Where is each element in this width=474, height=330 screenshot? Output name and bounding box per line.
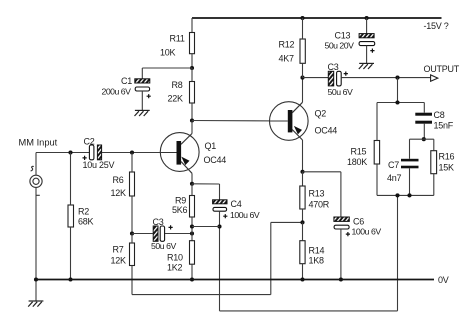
wire C4 bottom down past 0V (219, 211, 221, 311)
wire network bottom bus (377, 194, 434, 196)
junction C4/R9 wire (217, 224, 221, 228)
svg-text:10K: 10K (160, 48, 176, 58)
wire C2 to Q1 base (102, 152, 161, 154)
svg-text:100u 6V: 100u 6V (352, 227, 382, 237)
capacitor C6 (334, 217, 349, 221)
svg-text:R11: R11 (170, 34, 185, 44)
svg-text:R8: R8 (172, 80, 183, 90)
capacitor C4 (213, 200, 227, 204)
wire down to C1 (141, 68, 143, 79)
junction R14/0V (300, 277, 304, 281)
wire C1 to ground (141, 91, 143, 110)
node C junction C2/R6/Q1 base (130, 150, 134, 154)
svg-text:4K7: 4K7 (279, 54, 295, 64)
wire 0V rail (36, 279, 434, 281)
wire R9 to R10 through nodes (191, 217, 193, 241)
junction R2/0V (68, 277, 72, 281)
wire C7 to bottom bus (409, 168, 411, 195)
wire R7 down through 0V rail (131, 266, 133, 295)
junction C8/inner bus (422, 137, 426, 141)
svg-text:50u 6V: 50u 6V (328, 87, 353, 97)
wire input jack to signal node (35, 153, 37, 176)
svg-text:C8: C8 (434, 110, 445, 120)
junction R9 bottom/C4 return (190, 224, 194, 228)
svg-text:50u 20V: 50u 20V (325, 41, 355, 51)
resistor R12 (300, 39, 305, 63)
capacitor C13 (359, 34, 374, 38)
resistor R7 (130, 243, 135, 266)
svg-text:OC44: OC44 (315, 126, 338, 136)
capacitor C8 (415, 113, 432, 116)
wire R8 to Q1 collector node (191, 103, 193, 121)
resistor R2 (68, 205, 74, 227)
capacitor C1 (135, 79, 150, 83)
svg-text:OC44: OC44 (204, 155, 227, 165)
svg-text:R6: R6 (113, 175, 124, 185)
svg-text:470R: 470R (309, 200, 330, 210)
svg-text:200u 6V: 200u 6V (102, 87, 132, 97)
output arrow (431, 75, 438, 81)
wire feedback run to R13/R14 node (132, 294, 271, 296)
svg-text:1K8: 1K8 (309, 256, 325, 266)
node G junction R12/Q2 collector/C3 out (300, 76, 304, 80)
wire C3 to node E (165, 233, 192, 235)
wire down to C6 (340, 172, 342, 217)
wire R15 to bottom bus (376, 164, 378, 195)
wire node K to R14 (302, 222, 304, 240)
wire feedback rise (270, 222, 272, 294)
wire node A to C1 (142, 67, 192, 69)
wire top bus to R15 (376, 103, 378, 141)
wire inner bus to C7 (409, 139, 411, 159)
svg-text:C3: C3 (153, 217, 164, 227)
wire node J down to network (397, 78, 399, 103)
svg-text:R2: R2 (78, 207, 89, 217)
wire node C to R6 (131, 153, 133, 173)
svg-text:R16: R16 (439, 152, 455, 162)
wire node D to C3 (132, 233, 153, 235)
wire rail to R11 (191, 18, 193, 33)
wire rise to RIAA network bottom (397, 195, 399, 311)
resistor R16 (431, 151, 437, 174)
polarity tick (36, 194, 40, 196)
svg-text:C7: C7 (388, 160, 399, 170)
svg-text:R14: R14 (309, 246, 325, 256)
ground chassis below C13 (359, 63, 374, 69)
svg-text:10u 25V: 10u 25V (83, 160, 115, 170)
svg-text:4n7: 4n7 (387, 173, 402, 183)
wire jack sleeve to 0V (35, 187, 37, 279)
junction rail/R12 (300, 16, 304, 20)
svg-text:R10: R10 (167, 253, 183, 263)
wire R10 to 0V rail (191, 264, 193, 279)
wire R13 to node K (302, 209, 304, 222)
svg-text:MM Input: MM Input (19, 138, 58, 148)
wire rail to R12 (302, 18, 304, 39)
node E junction C3/R9/R10 (190, 231, 194, 235)
wire 0V to chassis ground (35, 280, 37, 302)
junction C7/bottom bus (407, 193, 411, 197)
ground chassis below C1 (135, 110, 150, 116)
resistor R14 (300, 241, 305, 264)
wire Q2 collector lead (302, 78, 304, 103)
svg-text:R7: R7 (113, 245, 124, 255)
wire R14 to 0V rail (302, 264, 304, 280)
wire R11 to node A (191, 54, 193, 68)
svg-text:C1: C1 (121, 76, 132, 86)
resistor R9 (190, 196, 195, 218)
svg-text:100u 6V: 100u 6V (230, 210, 260, 220)
wire Q1 collector to Q2 base (192, 120, 288, 123)
transistor Q2 OC44 (270, 102, 309, 141)
wire C8 to inner bus (423, 124, 425, 140)
wire Q2 emitter lead (302, 140, 304, 172)
svg-text:C3: C3 (328, 62, 339, 72)
svg-text:Q2: Q2 (315, 109, 327, 119)
transistor Q1 OC44 (160, 133, 199, 174)
wire network top bus (377, 102, 424, 104)
svg-text:50u 6V: 50u 6V (151, 241, 176, 251)
junction rail/C13 (365, 16, 369, 20)
svg-text:C4: C4 (231, 199, 242, 209)
capacitor C2 (89, 145, 94, 160)
wire rail to C13 (366, 18, 368, 34)
junction bottom bus/return (395, 193, 399, 197)
svg-text:R9: R9 (175, 196, 186, 206)
connector J1 MM input socket (30, 175, 42, 187)
wire C6 to 0V rail (340, 229, 342, 280)
svg-text:22K: 22K (168, 94, 184, 104)
wire Q1 emitter lead (191, 173, 193, 184)
wire feedback to R13/R14 junction (271, 221, 303, 223)
svg-text:C13: C13 (335, 31, 351, 41)
svg-text:15nF: 15nF (434, 121, 454, 131)
svg-text:15K: 15K (439, 163, 455, 173)
junction network top (395, 100, 399, 104)
resistor R8 (190, 82, 195, 104)
ground chassis below input (28, 301, 43, 307)
junction C6/0V (339, 277, 343, 281)
node A junction R11/R8/C1 (190, 66, 194, 70)
svg-text:Q1: Q1 (205, 141, 217, 151)
wire input node to R2 (70, 153, 72, 206)
node D junction R6/R7/C3 (130, 231, 134, 235)
node J junction output/RIAA network (395, 76, 399, 80)
svg-text:-15V ?: -15V ? (424, 21, 449, 31)
wire node G to C3 output cap (303, 77, 329, 79)
wire node H to C6 (303, 171, 341, 173)
svg-text:180K: 180K (347, 157, 367, 167)
wire node D to R7 (131, 234, 133, 244)
wire inner bus (410, 138, 434, 140)
svg-text:R12: R12 (279, 40, 295, 50)
wire R2 to 0V rail (70, 227, 72, 280)
svg-text:OUTPUT: OUTPUT (424, 64, 460, 74)
wire node A to R8 (191, 68, 193, 82)
svg-text:C2: C2 (84, 137, 95, 147)
wire R12 to node G (302, 63, 304, 77)
wire -15V supply rail (192, 17, 442, 19)
wire node F to C4 (192, 183, 220, 185)
resistor R13 (300, 186, 305, 209)
node B junction R8/Q1 collector/Q2 base (190, 118, 194, 122)
svg-text:68K: 68K (78, 217, 94, 227)
svg-text:R13: R13 (309, 189, 325, 199)
svg-text:0V: 0V (438, 275, 449, 285)
wire node H to R13 (302, 172, 304, 186)
wire R6 to node D (131, 196, 133, 234)
svg-text:12K: 12K (111, 256, 127, 266)
node F junction Q1 emitter/R9/C4 (190, 182, 194, 186)
wire R9 bottom to C4 bottom (192, 226, 220, 228)
capacitor C7 (401, 159, 419, 162)
svg-text:12K: 12K (111, 188, 127, 198)
junction input sleeve/0V (34, 277, 38, 281)
wire down to C4 (219, 184, 221, 200)
wire R16 to bottom bus (433, 174, 435, 196)
wire top bus to C8 (423, 103, 425, 113)
wire input to C2 (36, 152, 89, 154)
capacitor C3 (feedback) (153, 226, 158, 241)
wire inner bus to R16 (433, 139, 435, 151)
wire C13 to ground (366, 46, 368, 64)
capacitor C3 (output) (328, 71, 333, 86)
node H junction Q2 emitter/R13/C6 (300, 170, 304, 174)
resistor R15 (374, 141, 379, 165)
wire C3 to OUTPUT (341, 77, 430, 79)
wire node F to R9 (191, 184, 193, 196)
svg-text:R15: R15 (351, 147, 367, 157)
resistor R10 (190, 241, 195, 265)
svg-text:5K6: 5K6 (172, 205, 188, 215)
svg-text:1K2: 1K2 (167, 263, 183, 273)
junction R10/0V (190, 277, 194, 281)
resistor R11 (190, 33, 195, 54)
wire Q1 collector lead (191, 121, 193, 134)
node K junction R13/R14/feedback (300, 220, 304, 224)
wire bottom run to RIAA network (220, 310, 398, 312)
svg-text:C6: C6 (353, 217, 364, 227)
resistor R6 (130, 172, 135, 196)
junction input/R2 (68, 150, 72, 154)
